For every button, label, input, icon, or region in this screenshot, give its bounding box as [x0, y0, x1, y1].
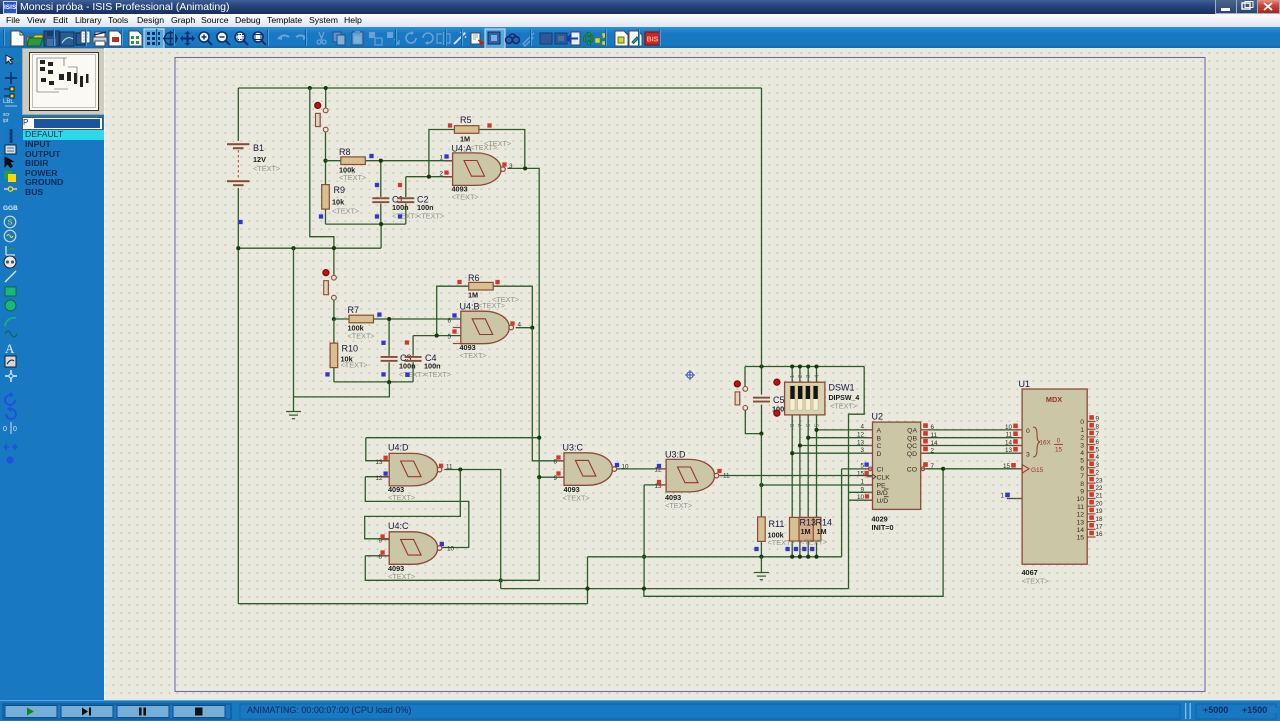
svg-text:10: 10 — [1076, 496, 1084, 503]
node U4:A out — [523, 166, 527, 170]
svg-text:QD: QD — [907, 451, 917, 458]
svg-text:12: 12 — [1076, 512, 1084, 519]
battery B1 — [227, 143, 250, 186]
svg-text:0: 0 — [1080, 419, 1084, 426]
svg-text:2: 2 — [1096, 470, 1100, 477]
wire node R8-left chain — [325, 132, 327, 224]
wire R5 feedback left — [429, 130, 455, 177]
state square U4:B pin5 — [452, 329, 456, 333]
wire R8 to gate pin1 — [326, 160, 453, 162]
svg-text:1M: 1M — [460, 135, 470, 144]
svg-text:R7: R7 — [348, 305, 360, 315]
svg-text:<TEXT>: <TEXT> — [452, 193, 479, 202]
resistor R6 — [469, 282, 494, 290]
node DSW1 pin 2 rail — [798, 364, 802, 368]
state square U3:C pin10 — [615, 463, 619, 467]
svg-text:LBL: LBL — [3, 99, 14, 105]
state square R5 right — [487, 123, 491, 127]
svg-text:3: 3 — [509, 163, 513, 170]
state square C2 bottom — [398, 214, 402, 218]
svg-text:DSW1: DSW1 — [829, 383, 855, 393]
svg-text:G15: G15 — [1031, 467, 1044, 474]
U2 CI bubble — [868, 467, 872, 471]
svg-text:20: 20 — [1096, 500, 1104, 507]
svg-text:15: 15 — [857, 471, 865, 478]
svg-text:5: 5 — [1096, 447, 1100, 454]
wire R10 chain — [333, 319, 335, 382]
svg-text:3: 3 — [1096, 462, 1100, 469]
node DSW1 pin 3 rail — [806, 364, 810, 368]
wire U1 pin1 stub — [1007, 498, 1022, 500]
node R7 right — [387, 317, 391, 321]
svg-text:INIT=0: INIT=0 — [872, 523, 894, 532]
svg-text:3: 3 — [806, 375, 812, 378]
svg-text:16X: 16X — [1040, 440, 1052, 447]
svg-text:16: 16 — [1096, 531, 1104, 538]
state square pulldown — [785, 547, 789, 551]
wire U2 QB to U1 — [921, 437, 1022, 439]
state square U3:D pin13 — [657, 480, 661, 484]
svg-text:<TEXT>: <TEXT> — [470, 143, 497, 152]
U1 select brace — [1033, 427, 1040, 457]
state square U3:C pin8 — [556, 455, 560, 459]
svg-text:13: 13 — [1005, 447, 1013, 454]
state square R7 right — [377, 312, 381, 316]
svg-text:<TEXT>: <TEXT> — [478, 301, 505, 310]
svg-text:GGB: GGB — [3, 205, 18, 212]
svg-text:13: 13 — [857, 439, 865, 446]
node D-B junction — [642, 587, 646, 591]
svg-text:R11: R11 — [769, 519, 785, 529]
state square C1 top — [375, 183, 379, 187]
svg-text:6: 6 — [1080, 465, 1084, 472]
svg-text:11: 11 — [1077, 504, 1084, 511]
svg-text:22: 22 — [1096, 485, 1104, 492]
node DSW1 pin 4 gnd — [814, 555, 818, 559]
svg-text:1: 1 — [439, 155, 443, 162]
svg-text:R5: R5 — [460, 115, 472, 125]
svg-text:5: 5 — [1080, 458, 1084, 465]
state square R8 right — [369, 154, 373, 158]
state square U4:A pin1 — [444, 154, 448, 158]
state square C4 top — [405, 340, 409, 344]
state square U4:A pin3 — [502, 162, 506, 166]
state square U4:C pin8 — [380, 550, 384, 554]
svg-text:0: 0 — [13, 426, 17, 433]
wire C4 to pin5 — [413, 336, 461, 382]
state square pulldown — [810, 547, 814, 551]
wire R6 feedback right — [493, 286, 532, 328]
wire pin13 feed — [366, 438, 539, 461]
state square R5 left — [448, 123, 452, 127]
svg-text:U4:B: U4:B — [460, 302, 480, 312]
state square U2 CLK — [864, 471, 868, 475]
svg-text:4: 4 — [1080, 450, 1084, 457]
wire pin9 net down — [365, 477, 539, 580]
svg-text:10: 10 — [447, 546, 455, 553]
svg-text:14: 14 — [931, 440, 939, 447]
svg-text:12: 12 — [857, 432, 865, 439]
nand gate U3:C — [564, 453, 617, 486]
state square U4:A pin2 — [444, 170, 448, 174]
svg-text:15: 15 — [1003, 463, 1011, 470]
wire U2 input C — [800, 445, 873, 447]
pushbutton SW1 (osc1) — [315, 102, 328, 132]
svg-text:U4:C: U4:C — [388, 521, 409, 531]
wire button3 stub — [744, 367, 746, 387]
wire line C bottom rail — [238, 557, 587, 604]
svg-text:12V: 12V — [253, 155, 266, 164]
svg-text:7: 7 — [798, 424, 804, 427]
svg-text:C: C — [877, 443, 882, 450]
wire R11 chain — [760, 434, 762, 557]
counter IC U2 4029 — [873, 422, 921, 509]
nand gate U4:C — [389, 532, 442, 565]
svg-text:8: 8 — [1080, 481, 1084, 488]
svg-text:<TEXT>: <TEXT> — [563, 494, 590, 503]
svg-text:14: 14 — [1005, 440, 1013, 447]
origin marker — [685, 370, 695, 380]
svg-text:U4:A: U4:A — [452, 144, 472, 154]
svg-text:1M: 1M — [801, 527, 811, 536]
svg-text:4: 4 — [518, 322, 522, 329]
svg-text:U/D: U/D — [877, 498, 889, 505]
svg-text:13: 13 — [375, 459, 383, 466]
wire U2 QD to U1 — [921, 452, 1022, 454]
wire DSW1 pin 3 vertical — [807, 367, 809, 557]
svg-text:6: 6 — [931, 424, 935, 431]
wire C5 chain — [761, 88, 763, 434]
svg-text:9: 9 — [1096, 416, 1100, 423]
svg-text:<TEXT>: <TEXT> — [399, 370, 426, 379]
svg-text:11: 11 — [446, 464, 453, 471]
wire DSW top rail — [745, 366, 864, 368]
wire U4:A output — [508, 168, 540, 477]
state square R6 right — [495, 280, 499, 284]
wire battery bottom to left rail — [237, 188, 239, 604]
svg-text:10: 10 — [622, 464, 630, 471]
node U4:D out — [458, 467, 462, 471]
svg-text:D: D — [877, 451, 882, 458]
svg-text:<TEXT>: <TEXT> — [800, 538, 827, 547]
wire U4:C pin8 loop — [365, 556, 539, 581]
node U4:B out — [530, 326, 534, 330]
node pin13 gnd-line junction — [642, 555, 646, 559]
wire U2 CI — [842, 468, 869, 470]
wire line B bottom — [501, 588, 849, 590]
node C5 bottom — [759, 432, 763, 436]
sheet border — [175, 58, 1205, 692]
svg-text:2: 2 — [439, 171, 443, 178]
node B-C junction — [585, 587, 589, 591]
node R5 pin2 junction — [427, 175, 431, 179]
svg-text:<TEXT>: <TEXT> — [388, 493, 415, 502]
node R6 pin5 junction — [435, 334, 439, 338]
U2 CLK wedge — [873, 474, 876, 479]
wire U2 QC to U1 — [921, 445, 1022, 447]
svg-text:<TEXT>: <TEXT> — [253, 164, 280, 173]
node battery- — [236, 246, 240, 250]
state square R10 bottom — [325, 372, 329, 376]
resistor R5 — [454, 126, 479, 134]
svg-text:5: 5 — [815, 424, 821, 427]
node R7 left junction — [332, 317, 336, 321]
wire C1 link — [380, 161, 382, 224]
svg-text:<TEXT>: <TEXT> — [348, 332, 375, 341]
svg-text:9: 9 — [1080, 489, 1084, 496]
svg-text:11: 11 — [931, 432, 938, 439]
state square C2 top — [398, 183, 402, 187]
wire +V top rail — [238, 87, 761, 89]
node stair D — [790, 451, 794, 455]
resistor R10 — [330, 343, 338, 368]
node osc2 feed ground junction — [332, 246, 336, 250]
svg-text:1: 1 — [1080, 427, 1084, 434]
wire U2 input D — [792, 452, 872, 454]
node A-B link — [499, 578, 503, 582]
nand gate U4:B — [461, 311, 514, 344]
wire U2 PE net — [761, 484, 872, 486]
wire U2 B/D feed — [849, 367, 865, 589]
wire battery top — [237, 88, 239, 141]
svg-text:BIS: BIS — [647, 37, 659, 44]
state square U4:D pin13 — [383, 456, 387, 460]
svg-text:QB: QB — [907, 435, 917, 442]
nand gate U3:D — [666, 459, 719, 492]
capacitor C5 — [753, 397, 770, 403]
wire R5 feedback right — [479, 130, 525, 169]
svg-text:18: 18 — [1096, 516, 1104, 523]
wire cap rail osc1 — [326, 223, 406, 225]
resistor R11 — [758, 517, 766, 542]
node DSW1 pin 4 rail — [814, 364, 818, 368]
node gnd tap — [291, 246, 295, 250]
state square U3:C pin9 — [556, 471, 560, 475]
state square U4:C pin9 — [380, 534, 384, 538]
state square U2 CI — [864, 462, 868, 466]
node pin9 tap — [537, 475, 541, 479]
state square U3:D pin11 — [717, 469, 721, 473]
pushbutton SW2 (osc2) — [323, 270, 336, 300]
svg-text:12: 12 — [375, 475, 383, 482]
node top rail osc2 feed — [308, 86, 312, 90]
svg-text:<TEXT>: <TEXT> — [1022, 577, 1049, 586]
node DSW rail C5 — [759, 364, 763, 368]
svg-text:B1: B1 — [253, 143, 264, 153]
svg-text:S: S — [8, 218, 13, 227]
svg-text:<TEXT>: <TEXT> — [392, 211, 419, 220]
svg-text:<TEXT>: <TEXT> — [332, 207, 359, 216]
nand gate U4:D — [389, 453, 442, 486]
svg-text:21: 21 — [1096, 493, 1104, 500]
svg-text:<TEXT>: <TEXT> — [339, 173, 366, 182]
svg-text:CO: CO — [907, 466, 917, 473]
svg-text:U3:C: U3:C — [563, 443, 584, 453]
wire U2 U/D pin — [849, 499, 873, 501]
wire U4:D output — [444, 470, 500, 589]
svg-text:5: 5 — [860, 463, 864, 470]
svg-text:2: 2 — [931, 448, 935, 455]
svg-text:C5: C5 — [773, 395, 785, 405]
svg-text:A: A — [5, 341, 15, 356]
svg-text:9: 9 — [553, 475, 557, 482]
wire U3:C out to U3:D pin12 — [617, 468, 666, 470]
wire cap rail osc2 — [334, 381, 413, 383]
svg-text:U4:D: U4:D — [388, 443, 409, 453]
svg-text:R9: R9 — [334, 185, 346, 195]
svg-text:7: 7 — [1096, 431, 1100, 438]
wire button3 bottom — [745, 410, 761, 433]
svg-text:10: 10 — [857, 494, 865, 501]
wire DSW1 pin 2 vertical — [799, 367, 801, 557]
node DSW1 pin 1 rail — [790, 364, 794, 368]
U1 G15 enable triangle — [1022, 465, 1029, 474]
svg-text:10: 10 — [1005, 424, 1013, 431]
wire U2 QA to U1 — [921, 429, 1022, 431]
svg-text:2: 2 — [1080, 435, 1084, 442]
wire U4:B out down to U3:C pin8 — [532, 328, 564, 461]
wire osc2 feed step — [310, 88, 334, 275]
node R11 gnd — [759, 555, 763, 559]
svg-text:9: 9 — [860, 486, 864, 493]
svg-text:1M: 1M — [468, 291, 478, 300]
svg-text:<TEXT>: <TEXT> — [830, 402, 857, 411]
svg-text:11: 11 — [1005, 432, 1012, 439]
svg-text:8: 8 — [1096, 423, 1100, 430]
wire U4:B output — [516, 327, 533, 329]
node pin9 net junction A — [537, 436, 541, 440]
svg-text:1: 1 — [790, 375, 796, 378]
multiplexer IC U1 4067 — [1022, 389, 1087, 564]
svg-text:0: 0 — [1057, 438, 1061, 445]
svg-text:<TEXT>: <TEXT> — [341, 360, 368, 369]
capacitor C4 — [405, 356, 422, 362]
svg-text:14: 14 — [1076, 527, 1084, 534]
state square C1 bottom — [375, 214, 379, 218]
state square C3 top — [381, 341, 385, 345]
pin stubs — [381, 161, 1022, 556]
wire gnd line mid — [588, 469, 842, 557]
svg-text:0: 0 — [1026, 428, 1030, 435]
state square R11 — [754, 547, 758, 551]
wire U4:C output — [440, 547, 469, 549]
node CO down — [941, 467, 945, 471]
svg-text:5: 5 — [447, 334, 451, 341]
wire button2 to R7 node — [333, 300, 335, 319]
wire DSW1 pin 1 vertical — [791, 367, 793, 557]
svg-text:<TEXT>: <TEXT> — [417, 211, 444, 220]
resistor R14 — [799, 517, 821, 541]
state square C4 bottom — [405, 373, 409, 377]
node DSW1 pin 3 gnd — [806, 555, 810, 559]
node stair C — [798, 443, 802, 447]
resistor R13 — [790, 517, 807, 541]
state square U3:D pin12 — [657, 464, 661, 468]
wire ground rail osc1 — [238, 224, 381, 248]
node PE tap — [759, 483, 763, 487]
svg-text:<TEXT>: <TEXT> — [388, 572, 415, 581]
wire gnd rail osc2 — [294, 248, 390, 397]
state dot C5 bottom — [774, 410, 780, 416]
state square battery — [238, 220, 242, 224]
wire DSW1 pin 4 vertical — [816, 367, 818, 557]
ground symbol R11 — [760, 557, 762, 572]
node R8 right — [379, 159, 383, 163]
svg-text:QC: QC — [907, 443, 917, 450]
svg-text:6: 6 — [447, 318, 451, 325]
node stair B — [806, 436, 810, 440]
svg-text:CLK: CLK — [877, 474, 891, 481]
svg-text:MDX: MDX — [1046, 395, 1062, 404]
state square U4:C pin10 — [440, 542, 444, 546]
svg-text:A: A — [877, 428, 882, 435]
wire R7 to gate pin6 — [334, 318, 461, 320]
node R8 left junction — [323, 159, 327, 163]
svg-text:B: B — [877, 435, 882, 442]
state square U2 UD — [865, 494, 869, 498]
svg-text:6: 6 — [1096, 439, 1100, 446]
ground bars osc2 — [286, 412, 301, 419]
ground symbol osc2 — [293, 397, 295, 411]
svg-text:3: 3 — [860, 447, 864, 454]
svg-text:17: 17 — [1096, 524, 1104, 531]
wire U2 input B — [808, 437, 872, 439]
svg-text:0: 0 — [3, 426, 7, 433]
U1 output stubs, channel numbers, pin numbers — [1087, 421, 1095, 423]
pushbutton SW3 (reset) — [734, 381, 747, 410]
resistor R9 — [322, 185, 330, 210]
resistor R7 — [349, 315, 374, 323]
wire R6 feedback left — [437, 286, 469, 335]
wire button1 stub — [325, 88, 327, 108]
svg-text:<TEXT>: <TEXT> — [665, 501, 692, 510]
svg-text:CI: CI — [877, 467, 884, 474]
svg-text:1M: 1M — [817, 527, 827, 536]
state square U4:D pin12 — [383, 471, 387, 475]
wire line D CO net — [644, 469, 1022, 597]
state square R6 left — [457, 280, 461, 284]
resistor R8 — [341, 157, 366, 165]
svg-text:R8: R8 — [339, 147, 351, 157]
svg-text:11: 11 — [723, 473, 730, 480]
state square U4:D pin11 — [439, 464, 443, 468]
svg-text:1: 1 — [860, 479, 864, 486]
node DSW1 pin 2 gnd — [798, 555, 802, 559]
svg-text:7: 7 — [1080, 473, 1084, 480]
svg-text:4: 4 — [860, 424, 864, 431]
wire U2 input A — [817, 429, 873, 431]
svg-text:10k: 10k — [332, 198, 345, 207]
svg-text:4: 4 — [1096, 454, 1100, 461]
nand gate U4:A — [453, 153, 506, 186]
svg-text:R6: R6 — [468, 273, 480, 283]
svg-text:QA: QA — [907, 428, 917, 435]
state square U4:B pin6 — [452, 313, 456, 317]
node top rail button1 — [324, 86, 328, 90]
svg-text:R10: R10 — [342, 344, 359, 354]
svg-text:8: 8 — [790, 424, 796, 427]
svg-text:19: 19 — [1096, 508, 1104, 515]
ground bars R11 — [754, 573, 769, 580]
svg-text:B/D: B/D — [877, 490, 888, 497]
svg-text:23: 23 — [1096, 477, 1104, 484]
svg-text:PE: PE — [877, 482, 887, 489]
state square U4:B pin4 — [510, 321, 514, 325]
wire U3:D out to U2 CLK — [719, 475, 872, 477]
state square pulldown — [802, 547, 806, 551]
svg-text:ipt: ipt — [3, 118, 9, 124]
capacitor C2 — [397, 197, 414, 203]
